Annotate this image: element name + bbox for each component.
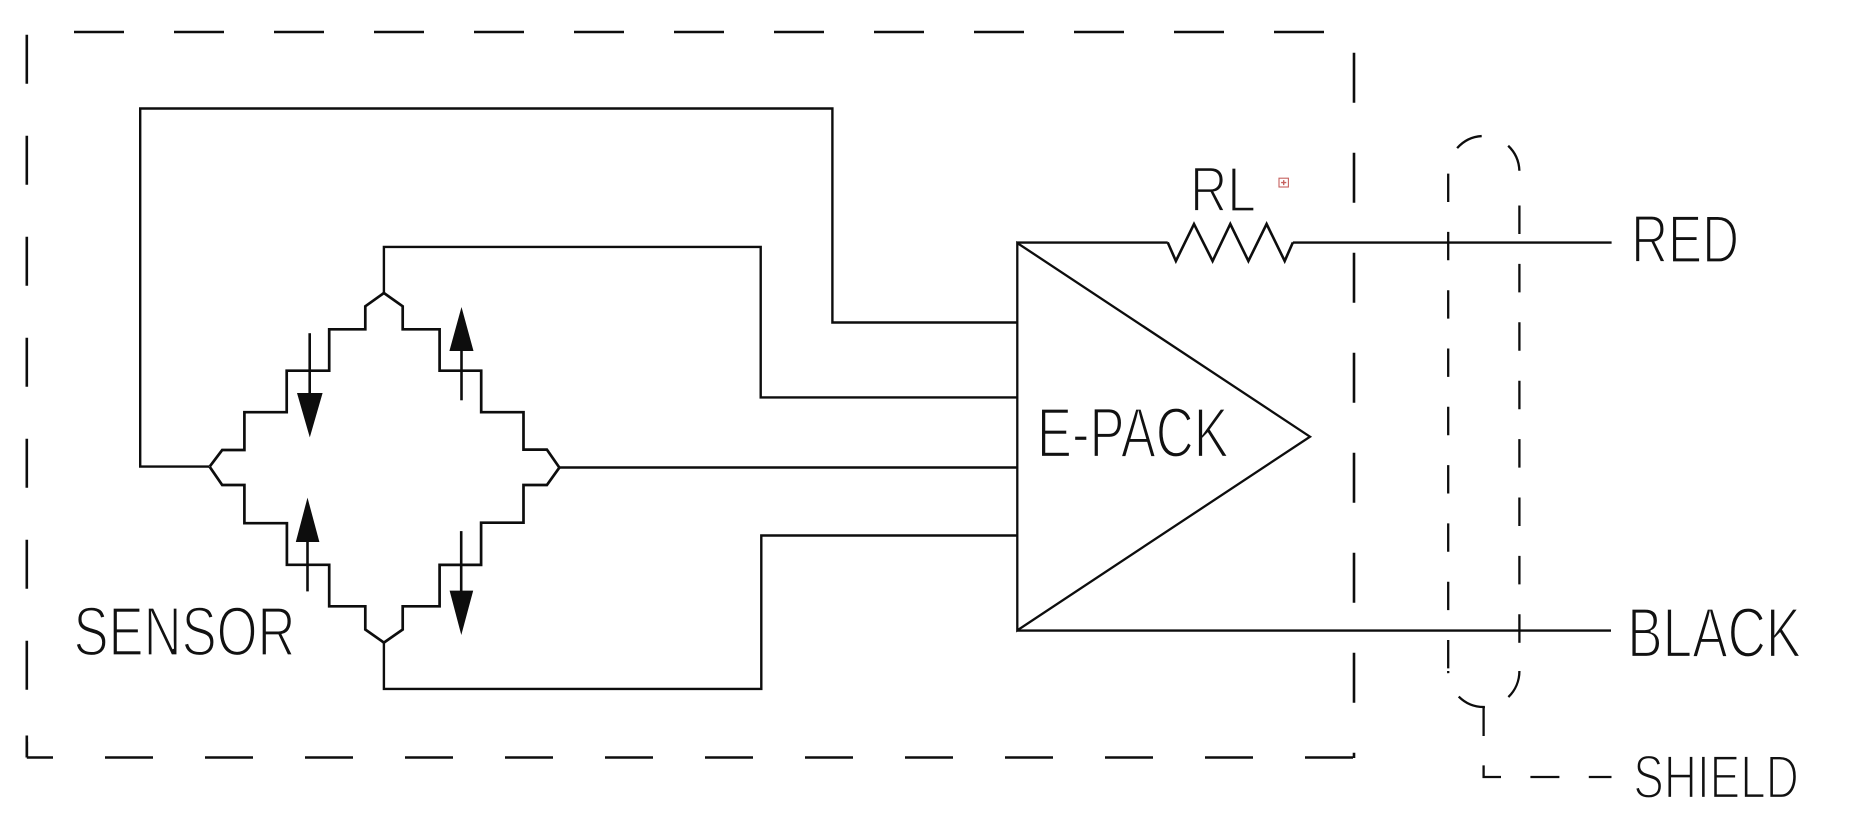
svg-text:BLACK: BLACK — [1627, 594, 1801, 673]
svg-text:SENSOR: SENSOR — [74, 593, 296, 671]
cable shield bottom dashed arc — [1448, 671, 1519, 707]
strain arrow down (bottom-right arm) — [450, 531, 474, 635]
strain arrow down (top-left arm) — [297, 333, 323, 437]
resistor RL zigzag — [1168, 224, 1293, 261]
op-amp U1 E-PACK amplifier triangle — [1017, 243, 1310, 630]
cable shield right dashed side — [1518, 176, 1520, 671]
wire signal mid : bridge right node to E-PACK input 3 — [559, 466, 1017, 468]
wire E-PACK output top to resistor — [1017, 241, 1168, 243]
wire RED lead — [1293, 241, 1612, 243]
svg-text:RED: RED — [1631, 203, 1739, 278]
sensor enclosure dashed border top edge — [27, 31, 1354, 34]
svg-text:RL: RL — [1190, 153, 1256, 225]
sensor enclosure bottom-left corner dash — [25, 736, 28, 758]
bridge arm resistor bottom-right — [384, 468, 560, 643]
sensor enclosure dashed border right edge — [1353, 32, 1356, 758]
bridge arm resistor top-right — [384, 293, 560, 468]
svg-text:E-PACK: E-PACK — [1037, 393, 1229, 472]
cable shield top dashed arc — [1448, 136, 1519, 172]
strain arrow up (bottom-left arm) — [296, 498, 320, 592]
sensor enclosure dashed border bottom edge — [27, 756, 1354, 759]
red plus-box marker — [1279, 178, 1288, 187]
bridge arm resistor top-left — [210, 293, 384, 467]
sensor enclosure dashed border left edge — [25, 32, 28, 757]
cable shield left dashed side — [1447, 172, 1449, 671]
svg-text:SHIELD: SHIELD — [1633, 743, 1799, 811]
wire excitation- : bridge bottom node under to E-PACK input 4 — [384, 536, 1017, 689]
wire excitation+ : left node up over top to E-PACK input 1 — [140, 109, 1017, 467]
wire BLACK lead — [1017, 629, 1611, 631]
strain arrow up (top-right arm) — [449, 307, 473, 400]
bridge arm resistor bottom-left — [210, 467, 384, 643]
wire signal+ : bridge top node to E-PACK input 2 — [384, 247, 1017, 398]
shield tail dashed wire to SHIELD label — [1484, 707, 1612, 777]
